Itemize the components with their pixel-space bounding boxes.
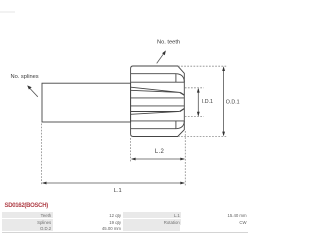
svg-text:I.D.1: I.D.1 — [202, 99, 213, 105]
svg-text:L.1: L.1 — [114, 188, 122, 194]
svg-text:No. teeth: No. teeth — [157, 39, 180, 45]
svg-text:No. splines: No. splines — [11, 74, 39, 80]
svg-text:O.D.1: O.D.1 — [226, 100, 240, 106]
svg-text:L.2: L.2 — [155, 149, 165, 155]
